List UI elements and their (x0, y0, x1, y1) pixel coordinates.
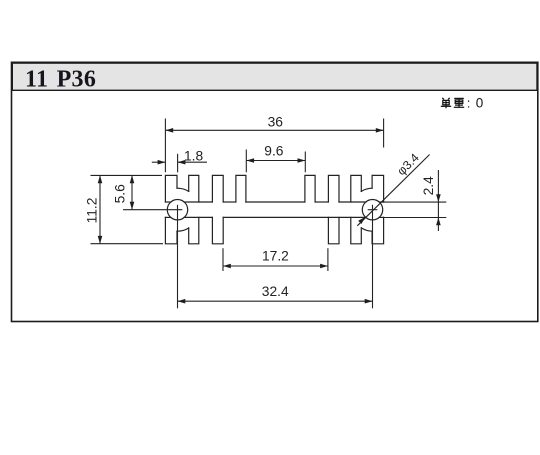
fin B (189, 175, 199, 202)
dim 36 extension lines (164, 119, 166, 173)
fin G (351, 175, 362, 202)
svg-text:1.8: 1.8 (184, 149, 204, 164)
dim 2.4 (379, 201, 446, 203)
svg-text:36: 36 (268, 115, 284, 130)
dim 5.6 (131, 175, 133, 209)
web bottom slot B'-C' (184, 216, 212, 218)
svg-text:32.4: 32.4 (262, 284, 289, 299)
kanji juu (weight) strokes (454, 97, 464, 99)
header bar (12, 63, 537, 90)
svg-text:2.4: 2.4 (421, 176, 436, 196)
svg-text:11.2: 11.2 (85, 198, 100, 224)
outer frame (12, 62, 538, 321)
fin F (328, 175, 339, 202)
11.2 arrows (98, 175, 103, 183)
hole centerline right (368, 209, 378, 211)
web top stubs at ends (165, 201, 170, 203)
arrowheads (98, 128, 441, 304)
17.2 arrows (223, 264, 231, 269)
dim 17.2 (222, 248, 224, 271)
slot E-F floor (315, 201, 328, 203)
dim 9.6 (245, 150, 247, 173)
fin D (236, 175, 246, 202)
dim 36 line (165, 129, 383, 131)
leader phi 3.4 (357, 155, 429, 226)
web bottom stubs at ends (165, 216, 170, 218)
svg-text:0: 0 (476, 96, 484, 111)
36 arrows (165, 128, 173, 133)
boss arc bottom-left (177, 228, 189, 231)
kanji tan (unit) strokes (442, 98, 444, 100)
fin B' (189, 217, 199, 243)
5.6 arrows (130, 175, 135, 183)
web top under B and slot B-C (184, 201, 212, 203)
fin C (212, 175, 223, 202)
dim 11.2 (91, 174, 163, 176)
slot C-D floor (223, 201, 236, 203)
web top flat middle (246, 201, 305, 203)
fin F' (328, 217, 339, 243)
dimension texts (85, 115, 436, 299)
hole left (167, 200, 187, 220)
svg-text:9.6: 9.6 (264, 144, 284, 159)
hole right (362, 200, 382, 220)
fin C' (212, 217, 223, 243)
32.4 arrows (178, 299, 186, 304)
boss arc top-left (177, 188, 189, 191)
hole centerline left (123, 209, 182, 211)
unit weight label (441, 98, 464, 109)
svg-text::: : (467, 96, 471, 111)
fin E (305, 175, 315, 202)
1.8 arrows outside (158, 160, 166, 165)
dim 32.4 (178, 300, 373, 302)
fin H (372, 175, 384, 202)
web bottom flat through under F' G' to hole (223, 216, 366, 218)
boss arc top-right (361, 188, 372, 191)
9.6 arrows (246, 158, 254, 163)
fin A (165, 175, 177, 202)
fin G' (351, 217, 362, 243)
leader arrow (358, 217, 365, 224)
boss arc bottom-right (361, 228, 372, 231)
svg-text:11 P36: 11 P36 (25, 66, 96, 92)
dim 1.8 lines (152, 161, 166, 163)
svg-text:17.2: 17.2 (262, 249, 289, 264)
fin H' (372, 217, 384, 243)
svg-text:5.6: 5.6 (112, 184, 127, 204)
fin A' (165, 217, 177, 243)
web top slot F-G through under G to hole (339, 201, 366, 203)
2.4 arrows outside (436, 194, 441, 202)
